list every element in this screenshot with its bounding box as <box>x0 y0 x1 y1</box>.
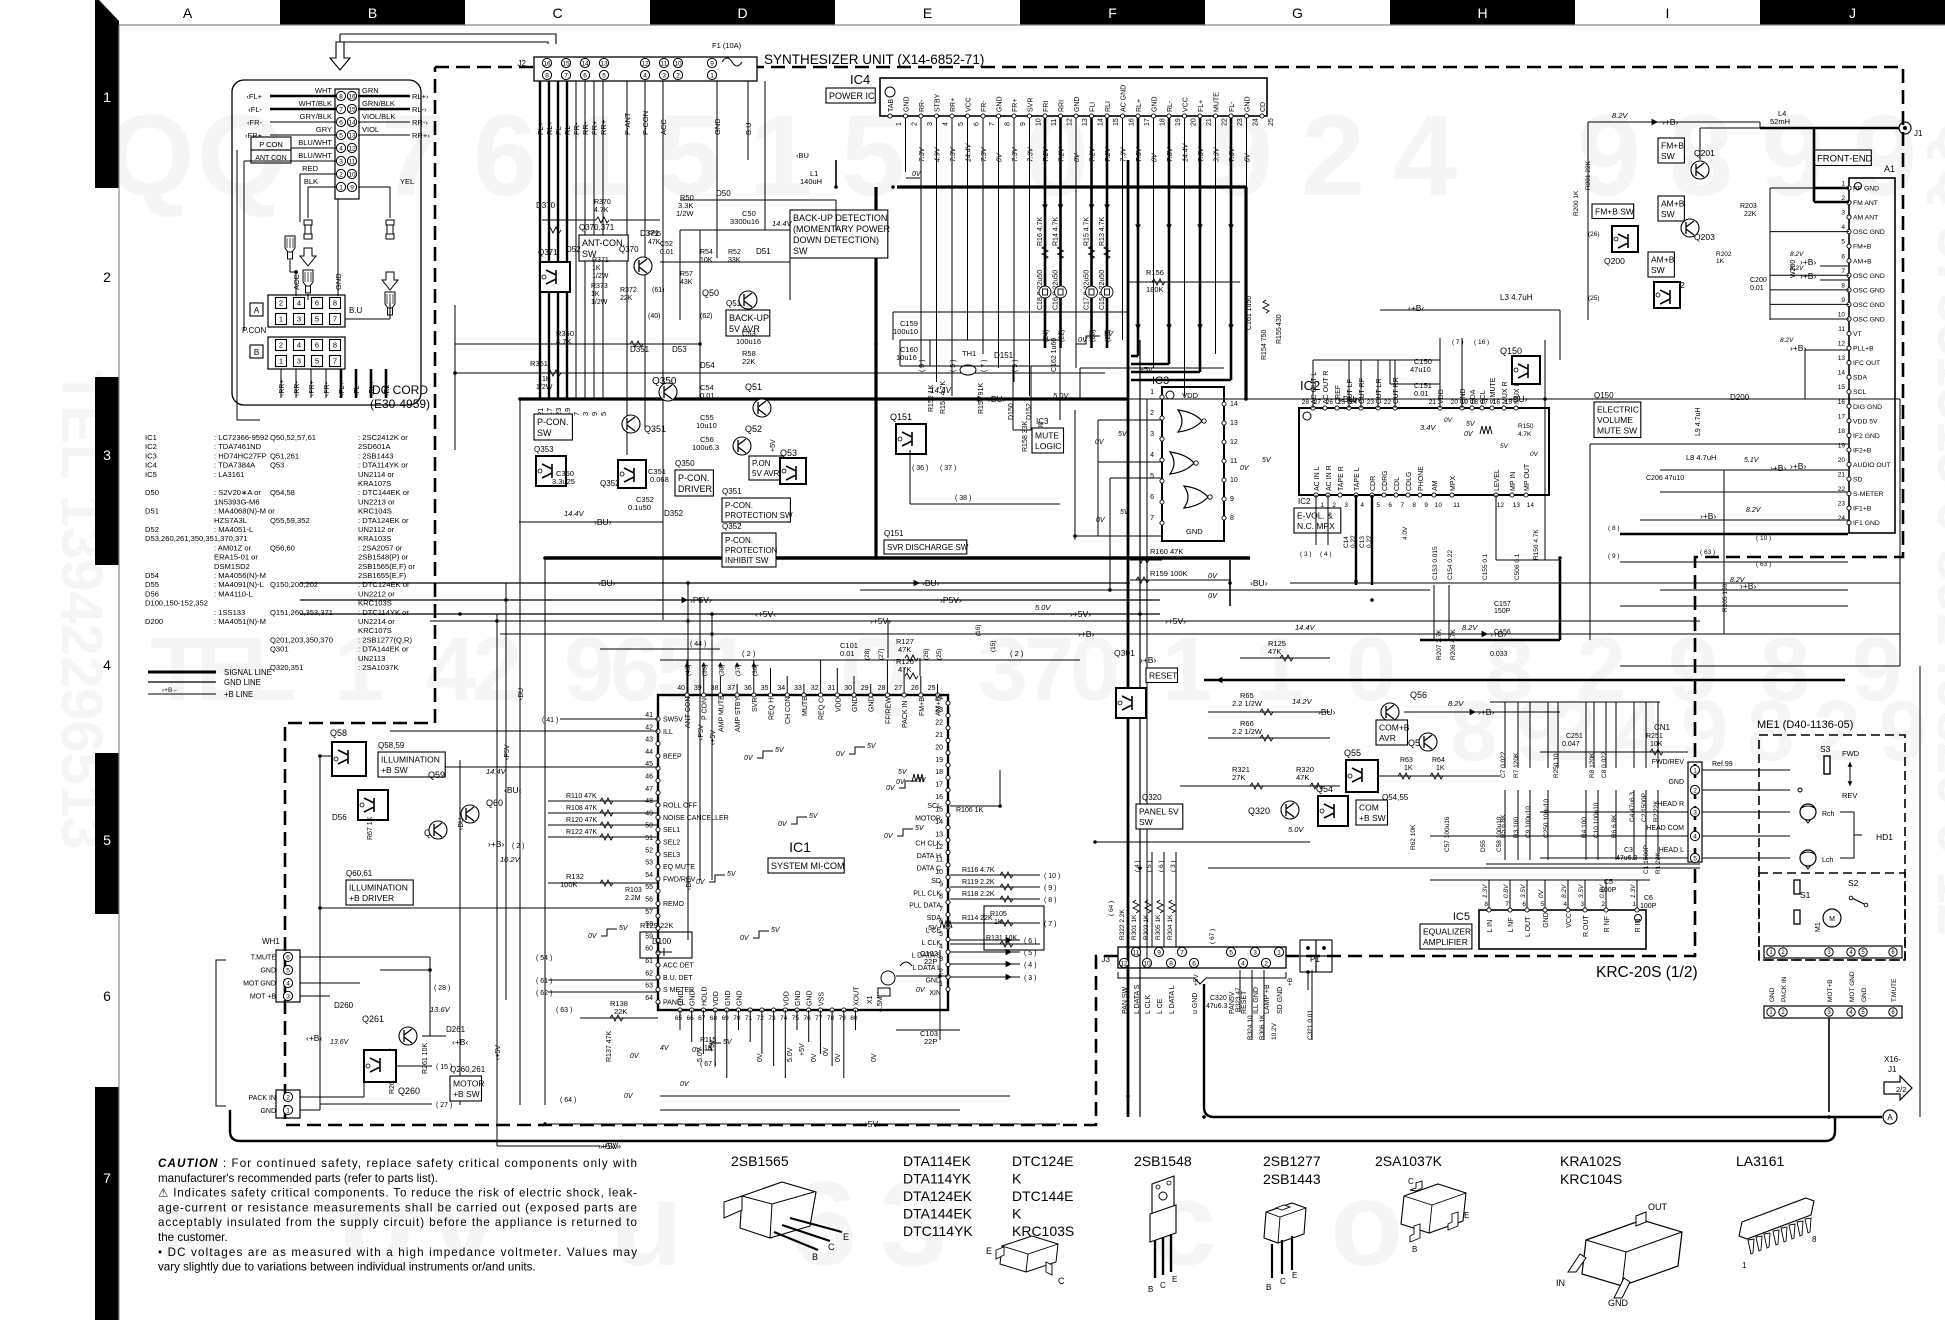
svg-text:RL+: RL+ <box>1136 99 1143 112</box>
svg-text:6: 6 <box>1150 494 1154 501</box>
svg-text:J: J <box>1849 5 1856 21</box>
svg-text:14: 14 <box>1527 502 1535 509</box>
svg-text:10: 10 <box>1036 118 1043 126</box>
svg-text:14: 14 <box>935 819 943 826</box>
svg-text:IF1+B: IF1+B <box>1853 506 1872 513</box>
svg-text:C321 0.01: C321 0.01 <box>1307 1010 1314 1040</box>
svg-text:14.4V: 14.4V <box>1183 142 1190 162</box>
svg-text:C: C <box>1280 1277 1286 1286</box>
svg-text:D53,260,261,350,351,370,371: D53,260,261,350,351,370,371 <box>145 534 248 543</box>
svg-text:FR-: FR- <box>981 100 988 112</box>
svg-text:0V: 0V <box>1074 152 1081 162</box>
svg-text:C2 1500P: C2 1500P <box>1641 793 1648 822</box>
svg-text:2: 2 <box>1150 410 1154 417</box>
svg-text:: TDA7461ND: : TDA7461ND <box>214 442 262 451</box>
svg-text:( 4 ): ( 4 ) <box>1024 962 1036 969</box>
svg-text:R103: R103 <box>625 887 642 894</box>
svg-text:EQ MUTE: EQ MUTE <box>663 864 695 871</box>
svg-text:23: 23 <box>1367 399 1375 406</box>
svg-text:0.01: 0.01 <box>660 249 674 256</box>
svg-text:13.6V: 13.6V <box>430 1005 451 1014</box>
svg-text:C156: C156 <box>1494 629 1511 636</box>
svg-text:0V: 0V <box>630 1053 640 1060</box>
svg-text:VIOL/BLK: VIOL/BLK <box>362 112 395 121</box>
svg-text:R156: R156 <box>1146 268 1164 277</box>
svg-text:63: 63 <box>645 983 653 990</box>
svg-text:P-CON: P-CON <box>641 111 650 135</box>
svg-text:: 2SB1277(Q,R): : 2SB1277(Q,R) <box>358 635 412 644</box>
svg-text:R154 750: R154 750 <box>1261 330 1268 360</box>
svg-text:7: 7 <box>339 106 343 113</box>
svg-text:5: 5 <box>599 412 608 416</box>
svg-text:GRN: GRN <box>362 86 379 95</box>
svg-text:AC GND: AC GND <box>1121 85 1128 112</box>
svg-text:3: 3 <box>662 72 666 79</box>
svg-text:P CON: P CON <box>259 140 283 149</box>
svg-text:180K: 180K <box>1146 285 1164 294</box>
svg-text:C10 100u10: C10 100u10 <box>1593 802 1600 838</box>
svg-text:C: C <box>552 5 562 21</box>
svg-text:31: 31 <box>828 685 836 692</box>
svg-text:HEAD L: HEAD L <box>1659 847 1684 854</box>
svg-text:23: 23 <box>935 707 943 714</box>
svg-text:IC1: IC1 <box>145 433 157 442</box>
svg-text:( 7 ): ( 7 ) <box>1044 921 1056 928</box>
svg-text:VDD: VDD <box>1438 389 1445 404</box>
svg-text:(26): (26) <box>923 648 930 660</box>
svg-text:SD GND: SD GND <box>1277 987 1284 1014</box>
svg-text:8.2V: 8.2V <box>1790 265 1804 272</box>
svg-text:C250 100u10: C250 100u10 <box>1543 799 1550 838</box>
svg-text:VDD 5V: VDD 5V <box>1853 418 1878 425</box>
svg-text:R202: R202 <box>1716 251 1732 258</box>
svg-text:25: 25 <box>1268 118 1275 126</box>
svg-text:4.7K: 4.7K <box>1518 431 1532 438</box>
svg-text:C: C <box>1408 1177 1414 1186</box>
svg-text:Q352: Q352 <box>722 522 742 531</box>
svg-text:7: 7 <box>1180 949 1184 956</box>
svg-text:LAMP +B: LAMP +B <box>1264 984 1271 1014</box>
svg-text:10.2V: 10.2V <box>1271 1022 1278 1040</box>
svg-text:D50: D50 <box>716 189 731 198</box>
svg-text:Q371: Q371 <box>538 248 558 257</box>
svg-text:50: 50 <box>645 823 653 830</box>
svg-text:OSC GND: OSC GND <box>1853 273 1885 280</box>
svg-text:77: 77 <box>815 1015 823 1022</box>
svg-text:D52: D52 <box>145 525 159 534</box>
svg-text:2: 2 <box>279 299 283 308</box>
svg-text:IF2 GND: IF2 GND <box>1853 433 1880 440</box>
svg-text:3: 3 <box>1580 901 1584 908</box>
svg-text:VDD: VDD <box>713 991 720 1006</box>
svg-text:C206 47u10: C206 47u10 <box>1646 475 1684 482</box>
svg-text:LEVEL: LEVEL <box>1494 469 1501 491</box>
svg-text:EQUALIZER: EQUALIZER <box>1423 927 1471 937</box>
svg-text:S1: S1 <box>1800 890 1811 900</box>
svg-text:62: 62 <box>645 970 653 977</box>
svg-text:PAN SW: PAN SW <box>1122 987 1129 1014</box>
svg-text:18: 18 <box>1838 428 1846 435</box>
svg-text:KRA103S: KRA103S <box>358 534 391 543</box>
svg-text:BEEP: BEEP <box>663 753 682 760</box>
svg-text:B: B <box>368 5 377 21</box>
svg-text:( 2 ): ( 2 ) <box>512 843 524 850</box>
svg-text:IC5: IC5 <box>145 470 157 479</box>
svg-text:16: 16 <box>1129 118 1136 126</box>
svg-text:R152 1K: R152 1K <box>928 384 935 412</box>
svg-text:15: 15 <box>562 60 570 67</box>
svg-text:4: 4 <box>1360 502 1364 509</box>
svg-text:CH CON: CH CON <box>785 696 792 724</box>
svg-text:FM ANT: FM ANT <box>1853 200 1878 207</box>
svg-text:R8 120K: R8 120K <box>1589 752 1596 778</box>
svg-text:7.3V: 7.3V <box>1012 146 1019 162</box>
svg-text:: DTC124EK or: : DTC124EK or <box>358 580 410 589</box>
svg-text:›+5V›: ›+5V› <box>1070 609 1091 619</box>
svg-text:7: 7 <box>1400 502 1404 509</box>
svg-text:30: 30 <box>844 685 852 692</box>
svg-text:150P: 150P <box>1494 608 1511 615</box>
svg-text:C320: C320 <box>1210 995 1227 1002</box>
svg-text:: LC72366-9592: : LC72366-9592 <box>214 433 268 442</box>
svg-text:IC2: IC2 <box>1298 497 1311 506</box>
svg-text:• DC voltages are as measured: • DC voltages are as measured with a hig… <box>158 1246 637 1259</box>
svg-text:Q60: Q60 <box>486 798 503 808</box>
svg-text:0.8V: 0.8V <box>1503 884 1510 898</box>
svg-text:2: 2 <box>1813 684 1860 779</box>
svg-text:2.2M: 2.2M <box>625 895 641 902</box>
svg-text:1: 1 <box>1693 767 1697 774</box>
svg-text:R67 1K: R67 1K <box>367 816 374 840</box>
svg-text:ELECTRIC: ELECTRIC <box>1597 405 1639 415</box>
svg-text:WH1: WH1 <box>262 937 280 946</box>
svg-text:L DATA L: L DATA L <box>1169 985 1176 1014</box>
svg-text:4: 4 <box>643 72 647 79</box>
svg-text:52: 52 <box>645 847 653 854</box>
svg-text:R158 33K: R158 33K <box>1022 421 1029 452</box>
svg-text:7: 7 <box>939 906 943 913</box>
svg-text:PAN5V: PAN5V <box>1229 991 1236 1014</box>
svg-text:AVR: AVR <box>1379 733 1396 743</box>
svg-text:VDD: VDD <box>1182 391 1198 400</box>
svg-text:I: I <box>1666 5 1670 21</box>
svg-text:VCC: VCC <box>1183 97 1190 112</box>
svg-text:REQ H: REQ H <box>769 698 776 720</box>
svg-text:3: 3 <box>286 993 290 1000</box>
svg-text:1.3V: 1.3V <box>1482 884 1489 898</box>
svg-text:1N5393G-M6: 1N5393G-M6 <box>214 497 260 506</box>
svg-text:8: 8 <box>1747 684 1794 779</box>
svg-text:BLK: BLK <box>304 177 318 186</box>
svg-text:5: 5 <box>315 315 319 324</box>
svg-text:3: 3 <box>1693 809 1697 816</box>
svg-text:1: 1 <box>896 122 903 126</box>
svg-text:11: 11 <box>936 856 943 863</box>
svg-text:R120 47K: R120 47K <box>566 817 597 824</box>
svg-text:15: 15 <box>1838 384 1846 391</box>
svg-text:16: 16 <box>543 60 551 67</box>
svg-text:GND: GND <box>737 990 744 1006</box>
svg-text:YEL: YEL <box>400 177 414 186</box>
svg-text:0.068: 0.068 <box>650 475 669 484</box>
svg-text:L OUT: L OUT <box>1525 916 1532 937</box>
svg-text:R4 100: R4 100 <box>1581 817 1588 838</box>
svg-text:3.5V: 3.5V <box>1520 884 1527 898</box>
svg-text:GRN/BLK: GRN/BLK <box>362 99 395 108</box>
svg-text:Q350: Q350 <box>675 459 695 468</box>
svg-text:Q151: Q151 <box>884 529 904 538</box>
svg-text:IC3: IC3 <box>1152 375 1169 387</box>
svg-text:47: 47 <box>645 786 653 793</box>
svg-text:MOT +B: MOT +B <box>250 994 276 1001</box>
svg-text:22: 22 <box>935 719 943 726</box>
svg-text:RESET: RESET <box>1149 671 1177 681</box>
svg-text:11: 11 <box>1230 458 1237 465</box>
svg-text:GND: GND <box>1186 527 1203 536</box>
svg-text:R322 2.2K: R322 2.2K <box>1119 909 1126 940</box>
svg-text:21: 21 <box>1429 399 1437 406</box>
svg-text:ACC DET: ACC DET <box>663 963 694 970</box>
svg-text:BACK-UP: BACK-UP <box>729 313 769 323</box>
svg-text:Lch: Lch <box>1822 857 1833 864</box>
svg-text:FR+: FR+ <box>1012 99 1019 112</box>
svg-text:1: 1 <box>1841 181 1845 188</box>
svg-text:‹+B‹: ‹+B‹ <box>1408 303 1424 313</box>
svg-text:RR+: RR+ <box>950 98 957 112</box>
svg-text:( 41 ): ( 41 ) <box>542 717 558 724</box>
svg-text:( 37 ): ( 37 ) <box>940 465 956 472</box>
svg-text:‹FL-: ‹FL- <box>354 383 361 397</box>
svg-text:1: 1 <box>710 72 714 79</box>
svg-text:0V: 0V <box>696 879 706 886</box>
svg-text:( 8 ): ( 8 ) <box>1044 897 1056 904</box>
svg-text:9: 9 <box>1424 502 1428 509</box>
svg-text:5V: 5V <box>928 925 938 932</box>
svg-text:SEL3: SEL3 <box>663 852 680 859</box>
svg-text:47K: 47K <box>1268 647 1281 656</box>
svg-text:0V: 0V <box>624 1093 634 1100</box>
svg-text:( 64 ): ( 64 ) <box>560 1097 576 1104</box>
svg-text:56: 56 <box>645 897 653 904</box>
svg-text:9: 9 <box>1879 684 1926 779</box>
svg-text:74: 74 <box>780 1015 788 1022</box>
svg-text:MUTE: MUTE <box>802 696 809 716</box>
svg-text:68: 68 <box>710 1015 718 1022</box>
svg-text:‹BU: ‹BU <box>796 151 809 160</box>
svg-text:S2: S2 <box>1848 878 1859 888</box>
svg-text:‹FR+: ‹FR+ <box>309 380 316 396</box>
svg-text:15: 15 <box>348 106 356 113</box>
svg-text:24: 24 <box>1838 515 1846 522</box>
svg-text:R304 1K: R304 1K <box>1167 914 1174 940</box>
svg-text:D54: D54 <box>700 361 715 370</box>
svg-text:SDA: SDA <box>1853 375 1867 382</box>
svg-text:3.5V: 3.5V <box>1578 884 1585 898</box>
svg-text:2SB1548(P) or: 2SB1548(P) or <box>358 553 409 562</box>
svg-text:u GND: u GND <box>1192 993 1199 1014</box>
svg-text:GND: GND <box>713 118 722 135</box>
svg-text:8: 8 <box>1230 515 1234 522</box>
svg-text:›BU›: ›BU› <box>922 578 940 588</box>
svg-text:RED: RED <box>302 164 318 173</box>
svg-text:OSC GND: OSC GND <box>1853 316 1885 323</box>
svg-text:IF1 GND: IF1 GND <box>1853 520 1880 527</box>
svg-text:Q150: Q150 <box>1500 346 1522 356</box>
svg-text:( 38 ): ( 38 ) <box>955 495 971 502</box>
svg-text:: 1SS133: : 1SS133 <box>214 608 245 617</box>
svg-text:PACK IN: PACK IN <box>902 701 909 729</box>
svg-text:2SB1443: 2SB1443 <box>1263 1171 1321 1187</box>
svg-text:+B: +B <box>1287 978 1294 986</box>
svg-text:4: 4 <box>1393 92 1457 220</box>
svg-text:T.MUTE: T.MUTE <box>1891 978 1898 1002</box>
svg-text:IC5: IC5 <box>1453 911 1470 923</box>
svg-text:4.9V: 4.9V <box>935 146 942 162</box>
svg-text:: TDA7384A: : TDA7384A <box>214 461 256 470</box>
svg-text:Ref.99: Ref.99 <box>1712 761 1733 768</box>
svg-text:UN2112 or: UN2112 or <box>358 525 395 534</box>
svg-text:32: 32 <box>811 685 819 692</box>
svg-text:R13 4.7K: R13 4.7K <box>1099 216 1106 246</box>
svg-text:D352: D352 <box>664 509 684 518</box>
svg-text:C: C <box>1058 1276 1065 1286</box>
svg-text:39: 39 <box>694 685 702 692</box>
svg-text:XIN: XIN <box>929 990 941 997</box>
svg-text:REMO: REMO <box>663 901 685 908</box>
svg-text:4: 4 <box>103 657 111 673</box>
svg-text:DSM1SD2: DSM1SD2 <box>214 562 250 571</box>
svg-text:RR-: RR- <box>919 99 926 112</box>
svg-text:+B SW: +B SW <box>381 765 408 775</box>
svg-text:13: 13 <box>348 132 356 139</box>
svg-text:( 63 ): ( 63 ) <box>1700 549 1715 556</box>
svg-text:AM+B: AM+B <box>1853 258 1872 265</box>
svg-text:A: A <box>254 306 260 315</box>
svg-text:42: 42 <box>645 724 653 731</box>
svg-text:100K: 100K <box>560 880 578 889</box>
svg-text:RR-›: RR-› <box>412 118 428 127</box>
svg-text:( 9 ): ( 9 ) <box>1608 553 1620 560</box>
svg-text:F1 (10A): F1 (10A) <box>712 41 742 50</box>
svg-text:Q52: Q52 <box>745 424 762 434</box>
svg-text:12: 12 <box>348 145 356 152</box>
svg-text:R55: R55 <box>648 231 661 238</box>
svg-text:14.4V: 14.4V <box>966 142 973 162</box>
svg-text:: DTA114YK or: : DTA114YK or <box>358 461 408 470</box>
svg-text:4: 4 <box>1150 452 1154 459</box>
svg-text:3.4V: 3.4V <box>1420 423 1436 432</box>
svg-text:L9 4.7uH: L9 4.7uH <box>1695 408 1702 436</box>
svg-text:13: 13 <box>1838 355 1846 362</box>
svg-text:( 28 ): ( 28 ) <box>434 985 450 992</box>
svg-text:27: 27 <box>1314 399 1322 406</box>
svg-text:Q320: Q320 <box>1142 793 1162 802</box>
svg-text:9: 9 <box>939 881 943 888</box>
svg-text:33K: 33K <box>728 257 741 264</box>
svg-text:0V: 0V <box>835 1053 842 1062</box>
svg-text:7.3V: 7.3V <box>981 146 988 162</box>
svg-text:5.0V: 5.0V <box>1035 603 1051 612</box>
svg-text:R108 47K: R108 47K <box>566 805 597 812</box>
svg-text:0V: 0V <box>1095 439 1105 446</box>
svg-text:SD: SD <box>1853 477 1863 484</box>
svg-text:8: 8 <box>939 894 943 901</box>
svg-text:16: 16 <box>1838 399 1846 406</box>
svg-text:HEAD R: HEAD R <box>1658 801 1684 808</box>
svg-text:3: 3 <box>978 620 1028 720</box>
svg-text:R150 4.7K: R150 4.7K <box>1533 529 1540 560</box>
svg-text:ACC: ACC <box>659 119 668 135</box>
svg-text:1/2W: 1/2W <box>591 299 608 306</box>
svg-text:11: 11 <box>1051 119 1058 126</box>
svg-text:Q56,60: Q56,60 <box>270 543 295 552</box>
svg-text:10: 10 <box>935 869 943 876</box>
svg-text:6: 6 <box>583 72 587 79</box>
svg-text:KRC104S: KRC104S <box>358 507 392 516</box>
svg-text:10: 10 <box>674 60 682 67</box>
svg-text:8.2V: 8.2V <box>1730 577 1746 584</box>
svg-text:7: 7 <box>1024 620 1074 720</box>
svg-text:( 63 ): ( 63 ) <box>1756 561 1771 568</box>
svg-text:4V: 4V <box>660 1045 670 1052</box>
svg-text:FRONT-END: FRONT-END <box>1817 154 1873 165</box>
svg-text:18: 18 <box>1471 399 1479 406</box>
svg-text:P-ANT: P-ANT <box>623 112 632 135</box>
svg-text:›+5V›: ›+5V› <box>600 1141 621 1151</box>
svg-text:: AM01Z or: : AM01Z or <box>214 543 252 552</box>
svg-text:R159 100K: R159 100K <box>1150 569 1188 578</box>
svg-text:›+B›: ›+B› <box>1790 461 1806 471</box>
svg-text:‹RR+: ‹RR+ <box>279 379 286 396</box>
svg-text:Q260,261: Q260,261 <box>450 1065 486 1074</box>
svg-text:0V: 0V <box>1245 152 1252 162</box>
svg-text:Q370,371: Q370,371 <box>579 223 615 232</box>
svg-text:7: 7 <box>989 122 996 126</box>
svg-text:2: 2 <box>1301 92 1365 220</box>
svg-text:13: 13 <box>600 60 608 67</box>
svg-text:7: 7 <box>103 1170 111 1186</box>
svg-text:4.7K: 4.7K <box>594 207 609 214</box>
svg-text:ERA15-01 or: ERA15-01 or <box>214 553 258 562</box>
svg-text:8: 8 <box>1812 1235 1817 1244</box>
svg-text:1K: 1K <box>1436 765 1445 772</box>
svg-text:9: 9 <box>1577 92 1641 220</box>
svg-text:0V: 0V <box>1240 465 1250 472</box>
svg-text:( 36 ): ( 36 ) <box>912 465 928 472</box>
svg-text:C7 0.022: C7 0.022 <box>1500 751 1507 778</box>
svg-text:DIG GND: DIG GND <box>1853 404 1882 411</box>
svg-text:‹FL+: ‹FL+ <box>246 92 262 101</box>
svg-text:5: 5 <box>1229 949 1233 956</box>
svg-text:MOTOR: MOTOR <box>453 1079 484 1089</box>
svg-text:( 44 ): ( 44 ) <box>690 641 706 648</box>
svg-text:71: 71 <box>745 1015 753 1022</box>
svg-text:R137 47K: R137 47K <box>606 1031 613 1062</box>
svg-text:R160 47K: R160 47K <box>1150 547 1183 556</box>
svg-text:D50: D50 <box>145 488 159 497</box>
svg-text:REQ C: REQ C <box>819 698 826 720</box>
svg-text:ILL GND: ILL GND <box>1253 987 1260 1014</box>
svg-text:4: 4 <box>286 980 290 987</box>
svg-text:R5 6.8K: R5 6.8K <box>1500 814 1507 838</box>
svg-text:( 3 ): ( 3 ) <box>1024 975 1036 982</box>
svg-text:FM+B: FM+B <box>1661 141 1684 151</box>
svg-text:CDRG: CDRG <box>1382 470 1389 491</box>
svg-text:47u10: 47u10 <box>1410 365 1431 374</box>
svg-text:C162 1u60: C162 1u60 <box>1051 338 1058 372</box>
svg-text:100P: 100P <box>1640 903 1657 910</box>
svg-text:›P5V›: ›P5V› <box>940 595 962 605</box>
